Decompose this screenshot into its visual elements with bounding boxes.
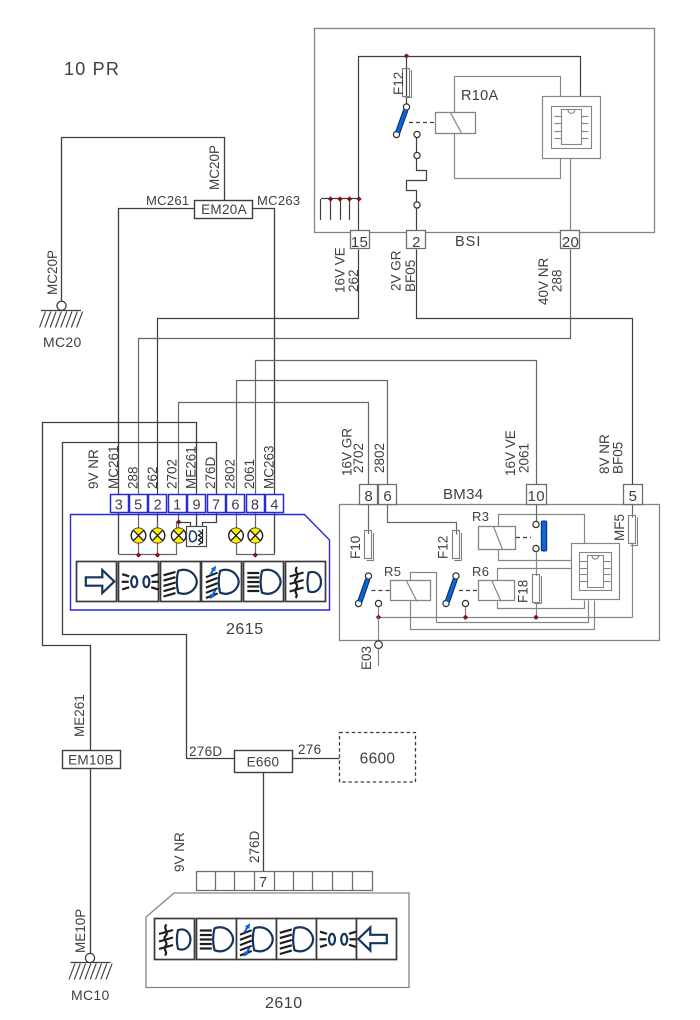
svg-text:6: 6 — [231, 497, 239, 513]
svg-text:2802: 2802 — [223, 459, 238, 489]
low beam icon (2610) — [277, 919, 317, 960]
wire switch common to bus — [378, 607, 380, 618]
lamp pin8 (2061) — [248, 528, 263, 543]
svg-text:R5: R5 — [384, 564, 401, 579]
wire R5 coil top to chip — [411, 573, 589, 623]
svg-text:4: 4 — [270, 497, 278, 513]
label E03 — [359, 646, 374, 670]
wire F18 to bus — [536, 602, 538, 617]
relay coil R5 — [391, 581, 431, 602]
svg-text:6600: 6600 — [360, 751, 396, 768]
svg-text:EM20A: EM20A — [201, 202, 247, 217]
label MC261 — [146, 193, 189, 208]
wire R6 coil top to chip — [498, 569, 572, 581]
label 2702 at BM34 — [351, 443, 366, 473]
svg-text:288: 288 — [125, 466, 140, 489]
node fuse-bus junction — [404, 53, 409, 58]
svg-text:1: 1 — [173, 497, 181, 513]
svg-text:R3: R3 — [472, 509, 489, 524]
node lamp bus junction right — [253, 552, 258, 557]
switch lever (BSI) — [398, 110, 406, 133]
svg-text:15: 15 — [351, 234, 368, 251]
svg-text:10: 10 — [528, 488, 545, 505]
label BF05 at BM34 — [611, 442, 626, 474]
svg-text:BM34: BM34 — [443, 486, 483, 503]
wire thermal element to pin 2 — [407, 138, 427, 249]
dashed link R3 coil to contact — [516, 537, 531, 539]
svg-text:276D: 276D — [189, 744, 222, 759]
label 288 (2615) — [125, 466, 140, 489]
label R6 — [472, 564, 489, 579]
wire MC263 EM20A to 2615 pin 4 — [253, 209, 275, 555]
svg-text:2802: 2802 — [372, 443, 387, 473]
connector 2610 box — [146, 893, 409, 988]
svg-text:BF05: BF05 — [403, 260, 418, 292]
svg-text:F12: F12 — [391, 72, 406, 95]
pin 8 (BM34) — [360, 485, 378, 506]
fuse F12 (BM34) — [453, 531, 462, 561]
svg-text:9: 9 — [193, 497, 201, 513]
svg-text:F12: F12 — [436, 536, 451, 559]
label 2061 at BM34 — [517, 443, 532, 473]
label 2802 (2615) — [223, 459, 238, 489]
relay coil R6 — [479, 581, 515, 602]
wire right lamp bus — [236, 529, 275, 556]
pin 5 (BM34) — [624, 485, 643, 506]
svg-text:F10: F10 — [348, 536, 363, 559]
svg-text:MC10: MC10 — [71, 987, 110, 1003]
label 8V NR — [597, 434, 612, 474]
wire 276D 2615 pin7 to E660 — [63, 443, 235, 759]
R3 contact bar (closed) — [541, 521, 546, 551]
label 2615 — [226, 621, 264, 638]
multi-splice symbol — [321, 196, 362, 220]
svg-text:R6: R6 — [472, 564, 489, 579]
wire BF05 BSI pin2 to BM34 pin5 — [417, 250, 633, 485]
label MC263 — [257, 193, 300, 208]
svg-text:5: 5 — [134, 497, 142, 513]
wire pin8 to F10 — [368, 505, 370, 535]
wire E03 tail — [378, 649, 380, 667]
svg-text:3: 3 — [115, 497, 123, 513]
switch contact (BSI) — [393, 104, 420, 138]
fuse F12 (BSI) — [403, 69, 412, 98]
pin 15 (BSI) — [351, 231, 370, 252]
label 9V NR (2610) — [172, 832, 187, 872]
position lights icon (2610) — [317, 919, 357, 960]
label R5 — [384, 564, 401, 579]
wire contact to F18 — [536, 552, 538, 576]
pin 2 (BSI) — [407, 231, 426, 252]
label 276D at E660 — [189, 744, 222, 759]
ground MC20 — [40, 301, 83, 327]
relay coil R3 — [479, 527, 516, 550]
label 16V VE — [333, 247, 348, 293]
label 2610 — [265, 995, 303, 1012]
relay coil R10A — [436, 112, 476, 134]
wire 262 BSI pin15 to 2615 pin2 — [158, 250, 359, 529]
svg-text:2615: 2615 — [226, 621, 264, 638]
label R3 — [472, 509, 489, 524]
BSI internal module box — [455, 77, 561, 179]
turn indicator icon (2610) — [357, 919, 397, 960]
wire BSI top bus — [359, 57, 581, 249]
pin 20 (BSI) — [561, 231, 580, 252]
lamp pin5 (288) — [131, 528, 146, 543]
wire MC20P from EM20A to ground run — [62, 138, 225, 303]
dashed link to R5 coil — [372, 590, 391, 592]
wire pin6 to F12 — [388, 505, 457, 535]
label MC261 (2615) — [106, 445, 121, 489]
svg-text:2: 2 — [154, 497, 162, 513]
wire 276 E660 to 6600 — [292, 758, 340, 760]
svg-text:276: 276 — [298, 742, 321, 757]
wire MC261 EM20A to 2615 pin 3 — [119, 209, 195, 555]
wire pin5 to MF5 — [632, 505, 634, 518]
svg-text:E03: E03 — [359, 646, 374, 670]
svg-text:MC263: MC263 — [262, 445, 277, 489]
label 2061 (2615) — [242, 459, 257, 489]
switch contact F10 (BM34) — [355, 573, 381, 607]
switch lever R6 — [447, 579, 455, 602]
svg-text:9V NR: 9V NR — [86, 449, 101, 489]
label R10A — [461, 88, 498, 104]
svg-text:2702: 2702 — [164, 459, 179, 489]
BM34 box — [340, 505, 660, 641]
text 10 PR — [64, 59, 120, 79]
wire EM10B to ground — [90, 769, 92, 955]
svg-text:8: 8 — [364, 488, 373, 505]
wire ME261 2615 pin9 to EM10B — [43, 423, 197, 751]
terminal E03 — [375, 641, 383, 649]
svg-text:6: 6 — [383, 488, 392, 505]
svg-text:E660: E660 — [247, 755, 280, 770]
BM34 ground bus — [379, 617, 633, 619]
wire fuse F12 top lead — [406, 56, 408, 104]
headlamp leveling icon (2615) — [202, 562, 242, 602]
label BF05 at BSI — [403, 260, 418, 292]
svg-text:2610: 2610 — [265, 995, 303, 1012]
label 9V NR (2615) — [86, 449, 101, 489]
wire stubs to dimmer box — [179, 522, 217, 527]
svg-text:276D: 276D — [203, 456, 218, 489]
svg-text:7: 7 — [259, 875, 267, 891]
splice EM10B — [63, 751, 121, 769]
label 276 — [298, 742, 321, 757]
label 16V GR — [340, 428, 355, 476]
svg-text:F18: F18 — [516, 580, 531, 603]
svg-text:BF05: BF05 — [611, 442, 626, 474]
svg-text:MC20: MC20 — [43, 334, 82, 350]
dashed link to R6 coil — [459, 590, 477, 592]
label MC263 (2615) — [262, 445, 277, 489]
switch contact F12 (BM34) — [443, 573, 469, 607]
wire left lamp bus — [119, 522, 177, 555]
wire R5 coil bottom to chip — [411, 601, 595, 630]
BSI box — [315, 29, 655, 233]
assembly 6600 dashed box — [340, 733, 416, 783]
wire chip to pin 20 — [570, 159, 572, 249]
wire R3 coil bottom to chip — [499, 550, 572, 561]
connector 2615 box — [71, 515, 330, 611]
R3 contact terminals — [533, 521, 539, 551]
label F18 — [516, 580, 531, 603]
pin row 2615 (pins 3 5 2 1 9 7 6 8 4) — [111, 495, 284, 514]
svg-text:288: 288 — [550, 269, 565, 292]
splice EM20A — [195, 201, 253, 219]
front fog icon (2615) — [286, 562, 326, 602]
wire MF5 to bus — [632, 544, 634, 618]
label ME261 (2615) — [184, 446, 199, 489]
svg-text:262: 262 — [145, 466, 160, 489]
label 262 wire — [346, 269, 361, 292]
wire 2702 2615 pin1 to BM34 pin8 — [179, 403, 369, 529]
fuse F10 — [365, 531, 374, 561]
svg-text:2061: 2061 — [517, 443, 532, 473]
label 276D (2610) — [247, 830, 262, 863]
svg-text:MC263: MC263 — [257, 193, 300, 208]
wire pin10 to R3 contact — [536, 505, 538, 522]
label 40V NR — [536, 257, 551, 305]
svg-text:8: 8 — [251, 497, 259, 513]
label BM34 — [443, 486, 483, 503]
label ME261 at EM10B — [72, 694, 87, 737]
label 16V VE at BM34 — [503, 430, 518, 476]
svg-text:ME261: ME261 — [72, 694, 87, 737]
ground MC10 — [69, 953, 112, 979]
svg-text:2: 2 — [412, 234, 421, 251]
svg-text:2702: 2702 — [351, 443, 366, 473]
pin 6 (BM34) — [379, 485, 397, 506]
label 2702 (2615) — [164, 459, 179, 489]
svg-text:ME10P: ME10P — [73, 909, 88, 953]
label MC20P vertical at EM20A — [207, 145, 222, 190]
label MC20 — [43, 334, 82, 350]
label 262 (2615) — [145, 466, 160, 489]
svg-text:BSI: BSI — [455, 234, 481, 250]
label 276D (2615) — [203, 456, 218, 489]
front fog icon (2610) — [155, 919, 195, 960]
svg-text:9V NR: 9V NR — [172, 832, 187, 872]
node lamp bus junctions left — [136, 552, 160, 557]
svg-text:2V GR: 2V GR — [389, 250, 404, 291]
svg-text:MC261: MC261 — [146, 193, 189, 208]
svg-text:20: 20 — [562, 234, 579, 251]
wire 2802 2615 pin6 to BM34 pin6 — [237, 381, 388, 529]
wire R6 coil bottom to chip — [498, 601, 585, 609]
dashed link switch to R10A coil — [409, 122, 435, 124]
wire 276D E660 to 2610 pin7 — [263, 772, 265, 872]
pin 10 (BM34) — [527, 485, 547, 506]
high beam icon (2615) — [244, 562, 284, 602]
wire to E03 — [378, 617, 380, 641]
node bus junctions — [376, 615, 539, 620]
label ME10P — [73, 909, 88, 953]
label F12 (BSI) — [391, 72, 406, 95]
label MC20P vertical at ground — [45, 250, 60, 295]
headlamp leveling icon (2610) — [237, 919, 277, 960]
svg-text:MC261: MC261 — [106, 445, 121, 489]
svg-text:MC20P: MC20P — [207, 145, 222, 190]
svg-text:MC20P: MC20P — [45, 250, 60, 295]
label 2V GR — [389, 250, 404, 291]
svg-text:10 PR: 10 PR — [64, 59, 120, 79]
svg-text:MF5: MF5 — [612, 514, 627, 541]
wire 2061 2615 pin8 to BM34 pin10 — [256, 361, 537, 529]
svg-text:5: 5 — [629, 488, 638, 505]
node pin1 junction — [176, 519, 181, 524]
high beam icon (2610) — [197, 919, 237, 960]
low beam icon (2615) — [161, 562, 201, 602]
wire 288 BSI pin20 to 2615 pin5 — [139, 250, 571, 529]
lamp pin2 (262) — [150, 528, 165, 543]
wire R3 coil top to chip — [499, 515, 585, 544]
switch lever R5 — [360, 579, 368, 602]
position lights icon (2615) — [119, 562, 159, 602]
label F10 — [348, 536, 363, 559]
BSI microcontroller — [543, 97, 601, 159]
svg-text:EM10B: EM10B — [68, 753, 114, 768]
svg-text:ME261: ME261 — [184, 446, 199, 489]
pin row 2610 (pin 7) — [197, 872, 373, 892]
label MC10 — [71, 987, 110, 1003]
BM34 driver chip — [572, 544, 620, 600]
svg-text:R10A: R10A — [461, 88, 498, 104]
svg-text:2061: 2061 — [242, 459, 257, 489]
label 288 wire — [550, 269, 565, 292]
label 2802 at BM34 — [372, 443, 387, 473]
label MF5 — [612, 514, 627, 541]
svg-text:7: 7 — [212, 497, 220, 513]
connector E660 — [235, 751, 293, 773]
label BSI — [455, 234, 481, 250]
fuse MF5 — [629, 516, 638, 546]
lamp pin1 (2702) — [171, 528, 186, 543]
turn indicator icon (2615) — [77, 562, 117, 602]
fuse F18 — [533, 575, 542, 604]
label F12 (BM34) — [436, 536, 451, 559]
svg-text:276D: 276D — [247, 830, 262, 863]
wire switch common to bus 2 — [465, 607, 467, 618]
lamp pin6 (2802) — [229, 528, 244, 543]
panel dimmer lamp box — [187, 527, 207, 547]
